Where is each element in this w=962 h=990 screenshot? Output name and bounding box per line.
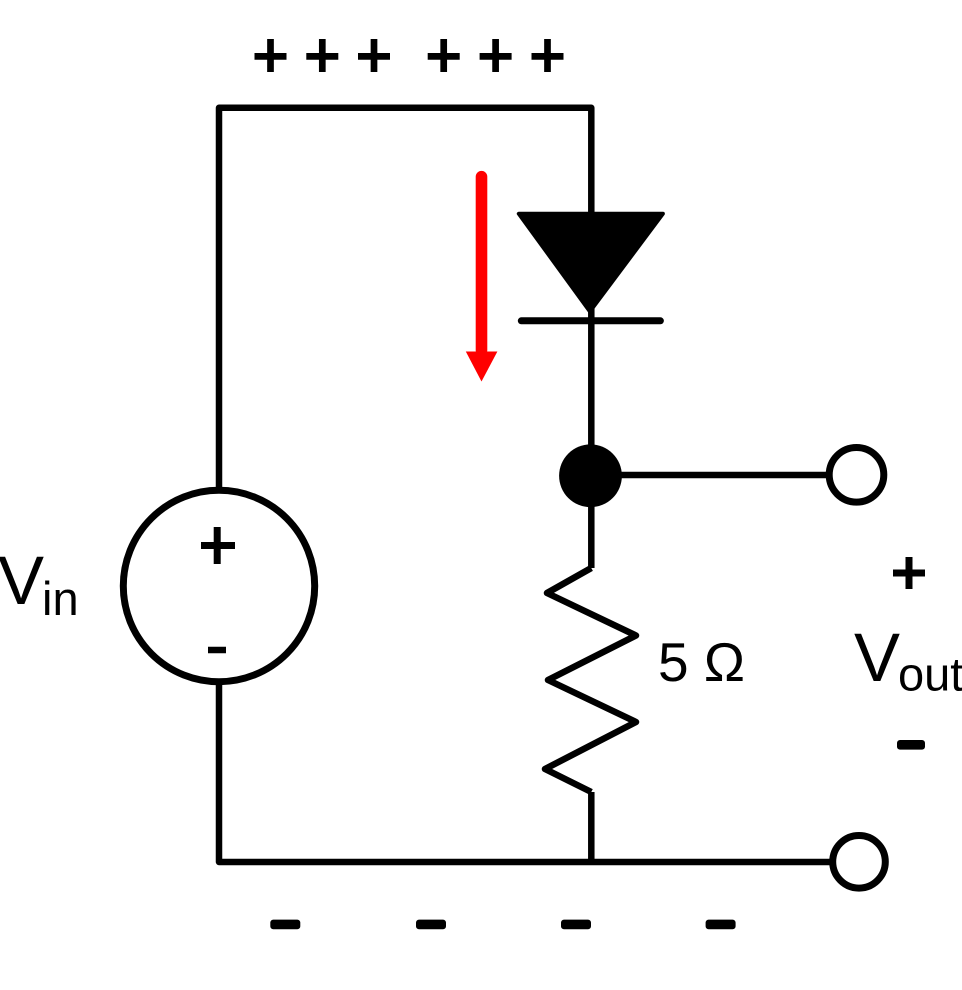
- diode D1 (triangle): [519, 214, 663, 312]
- svg-text:V: V: [0, 542, 44, 619]
- positive charge marker +1: [255, 39, 287, 72]
- wire: node to upper output terminal: [591, 472, 828, 479]
- positive charge marker +4: [428, 39, 460, 72]
- svg-text:V: V: [854, 619, 900, 696]
- positive charge marker +5: [480, 39, 512, 72]
- wire: diode cathode to resistor top: [588, 303, 595, 568]
- node (junction dot): [559, 444, 622, 507]
- negative charge marker -3: [561, 920, 591, 930]
- output terminal (bottom, -): [833, 836, 886, 889]
- svg-text:5 Ω: 5 Ω: [658, 631, 745, 693]
- voltage source V_in (circle): [123, 490, 314, 681]
- negative charge marker -4: [706, 920, 736, 930]
- wire: resistor bottom to bottom rail: [588, 792, 595, 862]
- output terminal (top, +): [829, 448, 884, 503]
- positive charge marker +2: [306, 39, 338, 72]
- resistor R1 (zigzag): [545, 568, 636, 792]
- voltage source plus symbol: [201, 527, 235, 564]
- negative charge marker -1: [270, 920, 300, 930]
- label - for V_out: [897, 740, 925, 750]
- svg-text:in: in: [42, 572, 79, 625]
- wire: top loop from source top to diode anode: [219, 108, 591, 487]
- label V_out: [854, 619, 962, 701]
- voltage source minus symbol: [208, 647, 226, 654]
- current direction arrow (red): [466, 171, 498, 382]
- positive charge marker +3: [358, 39, 390, 72]
- label + for V_out: [893, 557, 925, 589]
- svg-text:out: out: [898, 648, 962, 701]
- label 5 ohm: [658, 631, 745, 693]
- label V_in: [0, 542, 79, 625]
- wire: source bottom down and along bottom to output terminal: [219, 684, 832, 862]
- positive charge marker +6: [532, 39, 564, 72]
- diode D1 cathode bar: [521, 317, 660, 324]
- negative charge marker -2: [416, 920, 446, 930]
